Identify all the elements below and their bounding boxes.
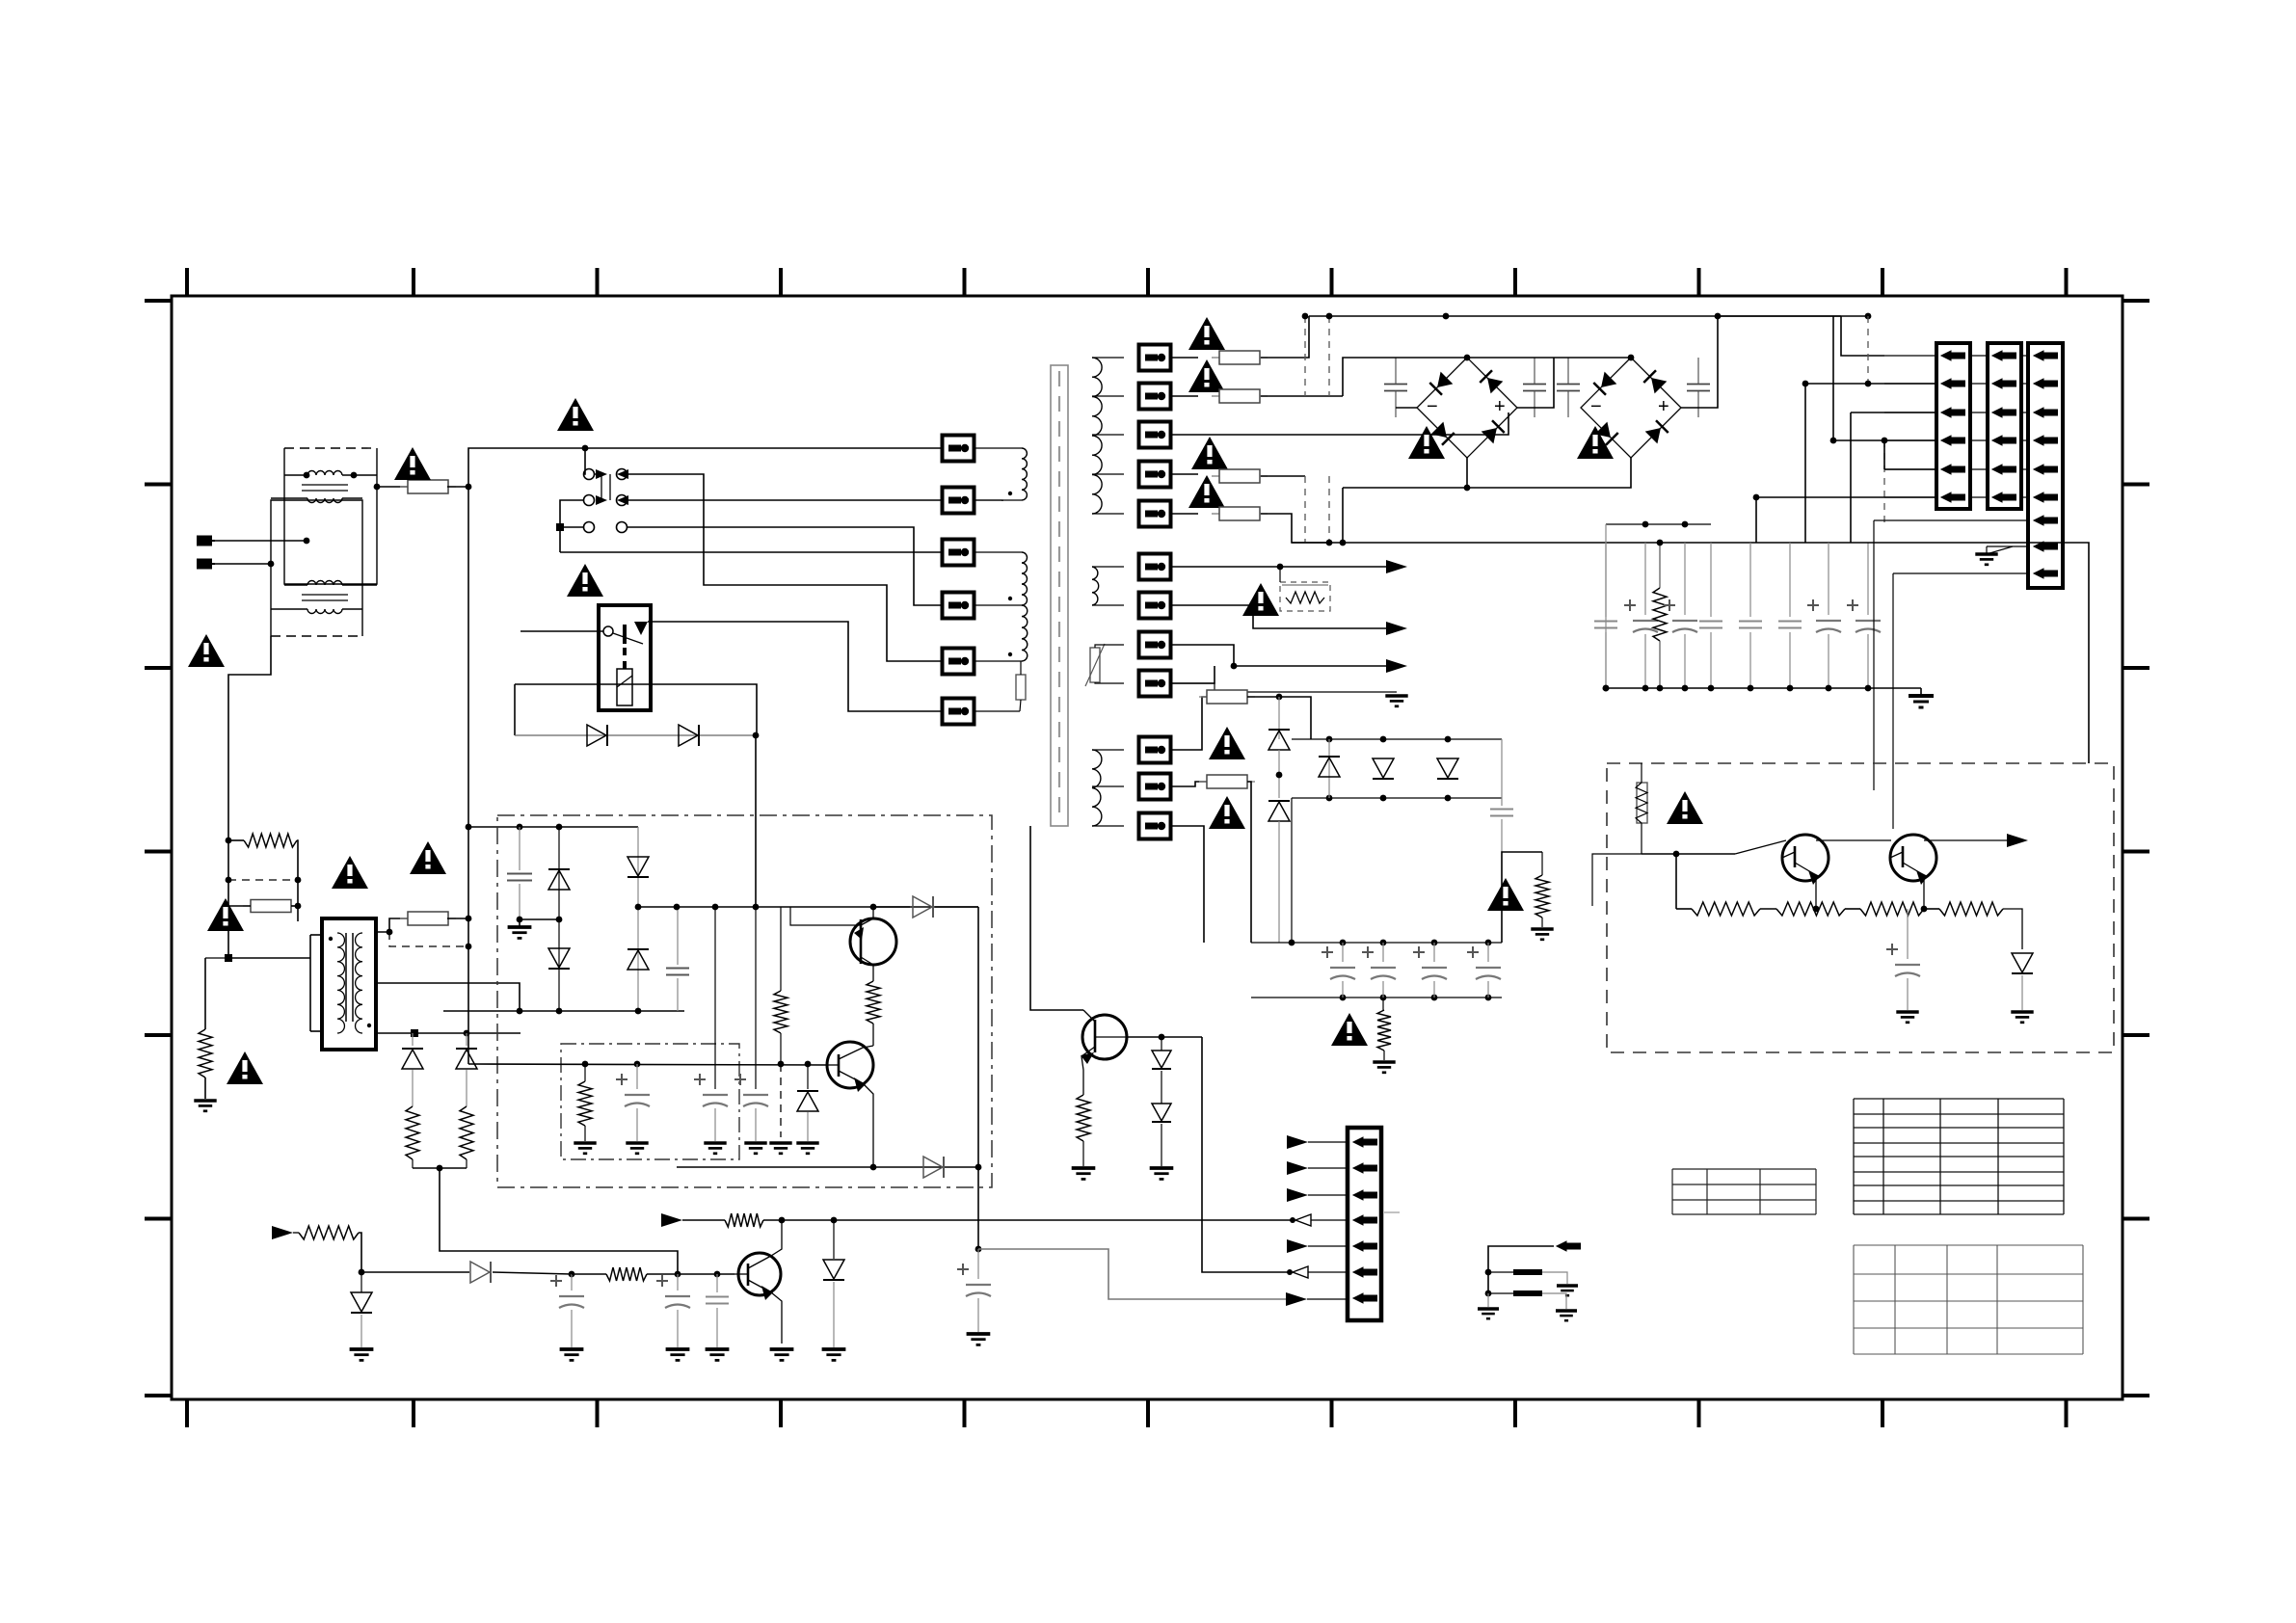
snubber diode down — [548, 948, 570, 969]
connector strip CN1 — [1936, 343, 1970, 509]
rail y1266 wire — [763, 1219, 1293, 1221]
wire BR2 plus out — [1681, 316, 1718, 408]
CN1 pin — [1941, 351, 1965, 360]
fuse secondary 3 — [1212, 469, 1268, 483]
ground jumper left — [1487, 1293, 1489, 1307]
wire node up to switch feed — [468, 448, 585, 487]
wire pole3 left to node — [560, 526, 583, 528]
wire S4 taps — [1092, 749, 1124, 751]
fusible link secondary row11 — [1139, 774, 1171, 800]
wire node down left column — [467, 487, 469, 827]
rail y1266 arrow — [661, 1213, 682, 1227]
CN1 pin — [1941, 379, 1965, 388]
ground cap bottom 3 — [706, 1349, 730, 1360]
wire left vertical from filter — [228, 636, 271, 840]
warning triangle sec3 — [1191, 437, 1228, 469]
wire to standby transformer — [228, 957, 310, 959]
wire pole1 right jog to fusebox row5 — [627, 474, 943, 661]
fuse secondary 1 — [1212, 351, 1268, 364]
wire ecap bus to right — [1502, 852, 1542, 943]
CN4 pin — [1353, 1190, 1377, 1200]
winding polarity dots — [1008, 492, 1012, 495]
ground ecap 1015 — [967, 1334, 991, 1344]
CN4 pin — [1353, 1163, 1377, 1173]
CN4 pin — [1353, 1293, 1377, 1303]
jumper bar 1 — [1513, 1269, 1542, 1275]
primary winding wires to transformer — [974, 447, 1022, 449]
warning triangle res load — [1487, 878, 1524, 911]
input resistor bottom-left — [299, 1226, 359, 1239]
jumper wires — [1488, 1246, 1554, 1293]
power switch contact pole1 left — [584, 469, 595, 480]
secondary winding S4 — [1092, 750, 1102, 826]
wire S1 tap 2 — [1092, 395, 1124, 397]
warning triangle sec6 — [1209, 727, 1245, 759]
sense resistor in box — [1637, 783, 1647, 823]
wire fuse to diode node — [1247, 696, 1279, 698]
relay arrow — [634, 622, 648, 635]
warning triangle T2 right — [410, 841, 446, 874]
ecap bottom 1 — [571, 1274, 573, 1290]
fusible link secondary row7 — [1139, 593, 1171, 619]
wire feed CN rows — [1841, 316, 1884, 356]
diode chain D up1 — [1278, 697, 1280, 739]
fuse secondary 4 — [1212, 507, 1268, 520]
cap bank element at 1857 — [1789, 543, 1791, 617]
base bus y1104 — [468, 1064, 827, 1065]
wire fuse to node — [447, 486, 468, 488]
lower rect bus B — [1292, 797, 1502, 799]
warning triangle BR1 — [1408, 426, 1445, 459]
fuse low 1 — [1199, 690, 1255, 704]
osc resistor R2 chain — [780, 907, 782, 991]
wire T2 mid out — [376, 983, 520, 1011]
wire fuse node to transformer top — [297, 906, 299, 921]
wire fuse1 up to top bus — [1261, 316, 1309, 358]
wire bus563 extension right — [1851, 543, 2089, 763]
transistor Q1 power — [850, 918, 896, 965]
wire link7 out to arrow — [1171, 605, 1389, 628]
bus y858 — [468, 826, 638, 828]
wire filter to fuse — [377, 486, 409, 488]
wire emitter Q11 down — [1923, 878, 1925, 909]
CN3 pin — [2034, 351, 2058, 360]
warning triangle sec7 — [1209, 796, 1245, 829]
jumper pin J1 — [1557, 1241, 1581, 1251]
wire bus to BR1 top — [1343, 358, 1467, 396]
warning triangle sec5 — [1242, 583, 1279, 616]
rect cap — [1501, 739, 1503, 806]
wire Q11 collector out arrow — [1924, 839, 2010, 841]
ground near CN3 — [1975, 554, 1997, 565]
fusible link primary row3 — [943, 540, 974, 566]
Q4 collector node — [1159, 1034, 1165, 1041]
revision table small — [1672, 1169, 1816, 1214]
fusible link primary row6 — [943, 699, 974, 725]
wire link10 to fuse — [1171, 697, 1207, 750]
regulator out arrow — [2007, 834, 2028, 847]
wire node right — [1279, 697, 1311, 739]
fusible link secondary row4 — [1139, 462, 1171, 488]
ecap bank bus bottom — [1251, 997, 1502, 998]
CN1 pin — [1941, 465, 1965, 474]
relay actuator bar — [623, 625, 627, 644]
left resistor to ground — [205, 957, 228, 959]
warning triangle top-center — [557, 398, 594, 431]
osc dashed down — [780, 1064, 782, 1137]
series resistor bottom — [606, 1267, 647, 1281]
fuse standby sec — [400, 912, 456, 925]
relay contact circle — [603, 626, 613, 636]
wire down to zener node — [359, 1233, 361, 1272]
wire standby down — [227, 906, 229, 958]
warning triangle left low — [227, 1051, 263, 1084]
posistor below output1 — [1280, 582, 1330, 611]
thermistor on S3 — [1090, 648, 1100, 682]
Q1 base feed resistor — [790, 907, 861, 925]
ecap bank cap 1488 — [1433, 943, 1435, 962]
wire link9b ground stub — [1171, 683, 1397, 692]
Q3 collector up to rail — [771, 1220, 782, 1256]
wire emitter Q10 down — [1815, 878, 1817, 909]
wire link1 to fuse2a — [1171, 357, 1198, 359]
Q1 connections — [861, 918, 873, 925]
wire fuse4 right jog — [1261, 514, 1329, 543]
resistor R start — [226, 838, 232, 844]
fuse standby — [297, 840, 298, 880]
wire ladder down to base row — [440, 1168, 678, 1275]
CN1 pin — [1941, 436, 1965, 445]
ladder diode 2 — [466, 1033, 467, 1046]
line filter box 2 (dashed bottom) — [271, 500, 362, 636]
ground osc C2 — [704, 1143, 726, 1154]
ground ecap bottom 1 — [560, 1349, 584, 1360]
ground osc C1 — [626, 1143, 648, 1154]
CN3 pin — [2034, 516, 2058, 525]
wire relay coil bottom crossing — [515, 683, 651, 685]
cap bank element at 1707 — [1644, 543, 1646, 615]
relay contact blade — [613, 633, 643, 644]
output arrow 1 — [1386, 560, 1407, 573]
wire fuse2 down — [1247, 782, 1251, 943]
resistor chain R b — [1776, 902, 1845, 916]
ladder resistor 1 — [406, 1106, 419, 1159]
bus y544 upper rail — [1606, 523, 1711, 525]
Q1 collector diode right — [873, 906, 910, 908]
wire BR2 bottom — [1467, 458, 1631, 488]
transistor Q10 — [1782, 835, 1829, 881]
fusible link secondary row8 — [1139, 632, 1171, 658]
fusible link secondary row12 — [1139, 813, 1171, 839]
ecap bank cap 1435 — [1382, 943, 1384, 962]
ground right rail — [1909, 696, 1934, 707]
ground ecap bottom 2 — [666, 1349, 690, 1360]
svg-text:−: − — [1427, 396, 1438, 417]
cap bank element at 1666 — [1605, 543, 1607, 617]
top bus wire — [1309, 315, 1868, 317]
cap bank element at 1897 — [1828, 543, 1829, 615]
bridge rectifier BR2 — [1581, 358, 1681, 458]
CN3 pin — [2034, 408, 2058, 417]
bus y1049 — [443, 1010, 684, 1012]
ecap bank cap 1393 — [1342, 943, 1344, 962]
warning triangle T2 left — [332, 856, 368, 889]
fuse secondary 2 — [1212, 389, 1268, 403]
secondary winding S2 — [1092, 567, 1099, 605]
CN1 pin — [1941, 408, 1965, 417]
notes table bottom — [1854, 1245, 2083, 1354]
Q1 emitter resistor — [867, 981, 880, 1024]
warning triangle low res — [1331, 1013, 1368, 1046]
power switch contact pole2 right — [617, 495, 627, 506]
fusible link secondary row9 — [1139, 671, 1171, 697]
power switch contact pole3 right — [617, 522, 627, 533]
wire S2 taps — [1092, 566, 1124, 568]
wire pole3 right jog to fusebox row4 — [627, 527, 943, 605]
wire box left entry — [1607, 853, 1642, 855]
cap bank element at 1938 — [1867, 543, 1869, 615]
ladder diode 1 — [412, 1033, 414, 1046]
T2 primary winding — [337, 933, 344, 1033]
border tick marks — [145, 268, 2149, 1427]
ground diode chain — [1150, 1168, 1174, 1179]
wire link11 to fuse — [1171, 782, 1207, 786]
ground left resistor — [194, 1101, 216, 1111]
fuse low 2 — [1199, 775, 1255, 788]
wire BR1 plus out — [1517, 358, 1554, 408]
lower rect bus A — [1292, 738, 1502, 740]
fusible link primary row5 — [943, 649, 974, 675]
Q4 emitter resistor — [1081, 1056, 1083, 1095]
fusible link secondary row5 — [1139, 501, 1171, 527]
ecap at node 1015 — [977, 1249, 979, 1279]
AC mains input terminal L — [198, 537, 215, 545]
wire fuse3 right — [1261, 475, 1305, 477]
ladder join — [413, 1167, 467, 1169]
primary winding P1 — [1022, 448, 1027, 500]
warning triangle sec1 — [1188, 317, 1225, 350]
fusible link primary row4 — [943, 593, 974, 619]
Q3 emitter to ground — [771, 1292, 782, 1344]
ecap bank cap 1544 — [1487, 943, 1489, 962]
wire feed from transformer area down — [1030, 826, 1083, 1010]
wire y941 to y1211 right leg — [977, 907, 979, 1167]
schematic border frame — [172, 296, 2122, 1399]
resistor chain R c — [1860, 902, 1924, 916]
wire into relay contact — [521, 630, 603, 632]
CN2 pin — [1992, 351, 2016, 360]
wire switch feed down to pole1 — [583, 448, 585, 474]
ground jumper 1 — [1557, 1286, 1578, 1295]
mains fuse F1 — [400, 480, 456, 493]
wire AC L to filter — [215, 540, 307, 542]
osc resistor R1 — [584, 1064, 586, 1081]
bottom diode right — [923, 1157, 944, 1178]
CN4 pin — [1353, 1241, 1377, 1251]
wire pole2 right to fusebox row2 — [627, 499, 943, 501]
cap bank element at 1775 — [1710, 543, 1712, 617]
wire busA left down — [1291, 798, 1293, 943]
power switch contact pole2 left — [584, 495, 595, 506]
wire left cap chain — [1605, 524, 1607, 688]
open arrow row6 — [1293, 1266, 1308, 1278]
svg-text:+: + — [1658, 396, 1669, 417]
right branch diode down — [637, 827, 639, 1011]
cap bank element at 1722 — [1659, 543, 1661, 588]
transistor Q3 standby reg — [738, 1253, 781, 1295]
Q4 internals — [1083, 1010, 1095, 1022]
CN4 right stub — [1384, 1211, 1400, 1213]
wire link4 to fuse — [1171, 473, 1198, 475]
cap bottom 3 — [716, 1274, 718, 1292]
diode chain from Q4 node — [1161, 1037, 1162, 1051]
oscillator outer dash-dot box — [497, 815, 992, 1187]
ground osc dashed — [769, 1143, 791, 1154]
CN3 pin — [2034, 436, 2058, 445]
degauss relay box — [599, 605, 651, 710]
cap bank element at 1748 — [1684, 543, 1686, 615]
T2 secondary winding — [356, 933, 362, 1033]
CN4 pin — [1353, 1215, 1377, 1225]
wire S1 tap 5 — [1092, 513, 1124, 515]
ladder resistor 2 — [460, 1106, 473, 1159]
CN4 pin — [1353, 1267, 1377, 1277]
warning triangle near relay — [567, 564, 603, 597]
jumper bar 2 — [1513, 1290, 1542, 1296]
wire link12 down — [1171, 826, 1204, 943]
transistor Q11 — [1890, 835, 1936, 881]
warning triangle sec4 — [1188, 475, 1225, 508]
resistor chain R a — [1675, 854, 1677, 909]
degauss diode D1 — [515, 734, 756, 736]
ground Q3 — [770, 1349, 794, 1360]
capacitor right of BR1 — [1523, 385, 1546, 391]
Q2 connections — [838, 1054, 841, 1077]
ground osc zener — [796, 1143, 818, 1154]
ground low res — [1373, 1062, 1395, 1073]
standby transformer T2 — [322, 918, 376, 1050]
ground jumper 2 — [1556, 1311, 1577, 1320]
rail y1266 resistor — [725, 1213, 763, 1227]
filter choke L2 winding b — [307, 609, 342, 614]
fusible link secondary row10 — [1139, 737, 1171, 763]
Q4 collector wire to connector row6 — [1202, 1037, 1290, 1272]
vertical x1015 node — [975, 1246, 982, 1253]
wire link6 out to arrow — [1171, 566, 1389, 568]
dashed links caps row1 — [1304, 316, 1306, 396]
warning triangle BR2 — [1577, 426, 1614, 459]
filter choke L1 winding a — [307, 471, 342, 476]
wire relay coil left down — [514, 684, 516, 735]
ecap in regulator — [1907, 909, 1909, 959]
filter internal wires — [284, 474, 307, 476]
wire left vertical to base bus — [466, 824, 472, 831]
relay coil — [617, 669, 632, 705]
wire CN3 pin9 — [1893, 572, 2028, 574]
wire link9 out — [1171, 666, 1215, 683]
ground osc C3 — [744, 1143, 766, 1154]
wire node to diode — [361, 1271, 469, 1273]
input arrow bottom-left — [272, 1226, 293, 1239]
ground zener regulator — [2011, 1012, 2033, 1023]
fusible link secondary row6 — [1139, 554, 1171, 580]
wire link8 out — [1171, 645, 1389, 666]
primary winding P2 — [1022, 552, 1028, 605]
wire link2 to fuse2b — [1171, 395, 1198, 397]
ground snubber cap — [508, 927, 532, 938]
regulator dashed box — [1607, 763, 2114, 1052]
wire S3 taps — [1095, 645, 1124, 648]
right branch diode up — [627, 949, 649, 970]
fusible link secondary row3 — [1139, 422, 1171, 448]
dashed holder — [228, 879, 298, 881]
wire bottom bus y563 — [1292, 542, 1851, 544]
warning triangle sec2 — [1188, 359, 1225, 392]
wire S1 tap 4 — [1092, 473, 1124, 475]
wire AC N to filter — [215, 563, 271, 565]
zener on rail — [833, 1220, 835, 1259]
secondary winding S1 — [1092, 358, 1102, 514]
ground ecap regulator — [1896, 1012, 1918, 1023]
fusible link secondary row1 — [1139, 345, 1171, 371]
wire switch feed to primary fusebox row1 — [585, 447, 943, 449]
ground zener rail — [822, 1349, 846, 1360]
zener bottom-left — [351, 1292, 372, 1313]
wire S1 tap 3 — [1092, 434, 1124, 436]
zener in regulator — [2012, 953, 2033, 973]
cap snubber — [519, 827, 521, 870]
CN2 pin — [1992, 465, 2016, 474]
wire from bridges to connectors top — [1718, 315, 1841, 317]
filter choke L1 core — [302, 484, 348, 486]
wire link3 right long — [1171, 412, 1508, 435]
bus y941 control — [638, 906, 978, 908]
wire Q10 to Q11 — [1816, 839, 1891, 841]
wire node to row7 — [978, 1249, 1290, 1299]
degauss diode D2 — [679, 725, 699, 746]
wire CN3 low pins — [1874, 519, 2028, 521]
primary winding P3 — [1022, 605, 1028, 661]
ground zener bottom-left — [350, 1349, 374, 1360]
filter choke L2 core — [302, 594, 348, 596]
CN4 stub arrows — [1287, 1135, 1308, 1149]
rect diode a — [1328, 739, 1330, 798]
AC mains input terminal N — [198, 560, 215, 569]
T2 polarity dots — [329, 937, 333, 941]
wire BR1 bottom — [1343, 458, 1467, 488]
primary link resistor — [1016, 675, 1026, 700]
wire pole2 left to node — [560, 500, 583, 552]
wire relay no contact out — [648, 622, 943, 711]
ground osc R1 — [574, 1143, 596, 1154]
transistor Q2 driver — [827, 1042, 873, 1088]
CN2 pin — [1992, 492, 2016, 502]
transistor Q4 sense — [1082, 1015, 1127, 1059]
CN3 pin — [2034, 569, 2058, 578]
wire link5 to fuse — [1171, 513, 1198, 515]
CN3 pin — [2034, 465, 2058, 474]
osc zener — [807, 1064, 809, 1089]
cap bank element at 1816 — [1749, 543, 1751, 617]
warning triangle standby1 — [207, 898, 244, 931]
CN1 pin — [1941, 492, 1965, 502]
wire bus bottom down res — [1382, 998, 1384, 1010]
connector strip CN2 — [1988, 343, 2021, 509]
switch link bars — [601, 474, 602, 500]
CN2 pin — [1992, 379, 2016, 388]
osc ecap C2 — [714, 907, 716, 1089]
CN3 pin — [2034, 379, 2058, 388]
